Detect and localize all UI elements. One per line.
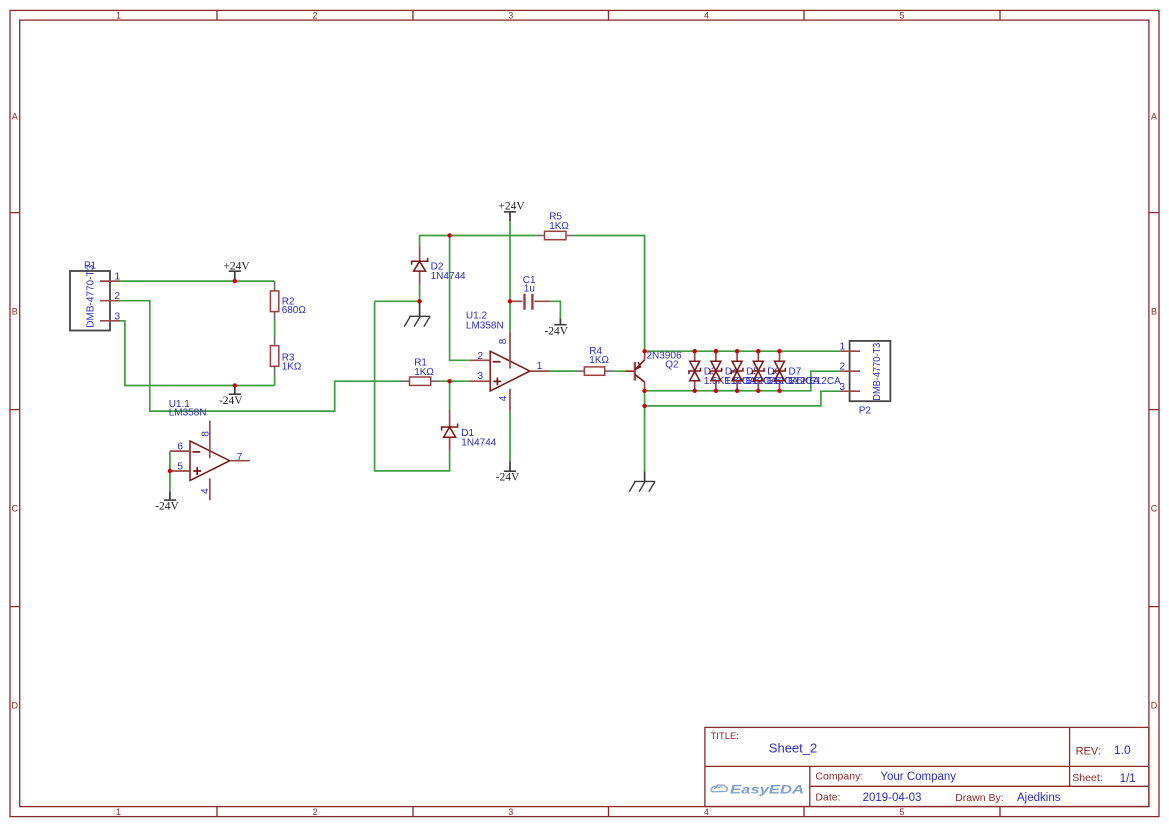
title block row line 2 [810,785,1149,787]
svg-text:Sheet_2: Sheet_2 [769,741,817,756]
svg-text:3: 3 [508,11,513,21]
node junction D2 bottom [417,299,421,303]
svg-text:4: 4 [704,807,709,817]
title block logo column divider [809,766,811,806]
wire R5 right to Q2 collector [575,236,644,352]
svg-text:EasyEDA: EasyEDA [730,785,804,797]
TVS diode D7 [774,351,841,391]
svg-text:Sheet:: Sheet: [1072,772,1102,784]
svg-text:5: 5 [899,11,904,21]
svg-text:8: 8 [200,431,211,437]
wire diode bottom rail to P2 pin2 [645,371,841,391]
op-amp U1.1 [169,399,250,500]
svg-text:1: 1 [114,272,120,283]
resistor R1 [401,358,441,386]
svg-text:1KΩ: 1KΩ [589,355,609,366]
node junction Q2 collector [642,349,646,353]
TVS diode D3 [689,351,756,391]
resistor R3 [270,337,302,377]
wire +24V column through C1 to U1.2 pin8 [509,221,511,331]
wire P1 pin3 to R3 bottom [120,321,275,386]
title block row line 1 [705,765,1149,767]
svg-text:5: 5 [899,807,904,817]
svg-text:D: D [12,701,19,711]
frame top ticks [217,10,1000,20]
TVS diode D6 [753,351,820,391]
power flag -24V at R3 net [219,386,243,407]
resistor R2 [270,281,306,320]
svg-text:-24V: -24V [219,395,243,407]
wire Q2 node to ground [644,391,646,472]
svg-text:-24V: -24V [544,325,568,337]
ground at D2 [404,302,430,327]
svg-text:B: B [1151,307,1157,317]
EasyEDA logo [711,785,804,797]
svg-text:1.0: 1.0 [1114,743,1131,757]
wire R4 right to Q2 base [615,370,625,372]
node junction Q2 emitter rail [642,389,646,393]
connector P1 [70,261,120,331]
wire R1 right to U1.2 pin3 [440,380,470,382]
resistor R5 [535,212,575,240]
wire left loop to D1 bottom [375,301,450,471]
node junction C1 left [508,299,512,303]
svg-text:LM358N: LM358N [466,321,504,332]
svg-text:A: A [1151,111,1157,121]
svg-text:1N4744: 1N4744 [461,438,496,449]
frame left ticks [10,213,20,607]
connector P2 [840,341,890,417]
node junction R1/pin3/D1 [447,379,451,383]
wire R2-R3 middle segment [274,321,276,337]
wire pin2 branch vertical [450,236,470,361]
frame bottom ticks [217,807,1000,817]
svg-text:Company:: Company: [815,771,863,783]
node junctions D5 [735,349,739,353]
svg-text:D: D [1151,701,1158,711]
TVS diode D4 [710,351,777,391]
title block rev column divider [1069,727,1071,786]
svg-text:1KΩ: 1KΩ [414,367,434,378]
resistor R4 [575,346,615,375]
svg-text:1u: 1u [524,284,535,295]
svg-text:1KΩ: 1KΩ [549,221,569,232]
svg-text:TITLE:: TITLE: [711,731,740,742]
node junctions D4 [714,349,718,353]
wire U1.2 pin4 to -24V [509,411,511,461]
svg-text:DMB-4770-T3: DMB-4770-T3 [86,264,97,327]
wire junction to D1 top [449,381,451,410]
svg-text:5: 5 [177,461,183,472]
svg-text:1.5KE12CA: 1.5KE12CA [789,376,842,387]
svg-text:7: 7 [237,452,243,463]
svg-text:8: 8 [498,338,509,344]
svg-text:3: 3 [114,311,120,322]
wire U1.1 pin6-pin5 to -24V [169,451,171,491]
svg-text:C: C [1151,504,1158,514]
svg-text:REV:: REV: [1076,746,1101,758]
svg-text:1/1: 1/1 [1120,773,1136,785]
svg-text:2: 2 [114,291,120,302]
svg-text:4: 4 [200,488,211,494]
svg-text:3: 3 [840,382,846,393]
svg-text:3: 3 [508,807,513,817]
svg-text:680Ω: 680Ω [282,305,307,316]
wire diode top rail to P2 pin1 [645,350,841,352]
svg-text:+24V: +24V [498,201,525,213]
svg-text:C: C [12,504,19,514]
svg-text:B: B [12,307,18,317]
ground at Q2 [629,471,655,491]
svg-text:4: 4 [704,11,709,21]
frame column numbers bottom [116,807,905,817]
wire U1.2 output to R4 [549,370,575,372]
op-amp U1.2 [466,311,549,412]
svg-text:2019-04-03: 2019-04-03 [863,792,922,804]
svg-text:DMB-4770-T3: DMB-4770-T3 [872,342,883,400]
svg-text:1: 1 [840,342,846,353]
svg-text:3: 3 [478,371,484,382]
svg-text:4: 4 [498,395,509,401]
svg-text:LM358N: LM358N [169,408,207,419]
svg-text:P2: P2 [859,405,872,416]
wire P1 pin1 to R2 top [120,280,275,282]
capacitor C1 [510,275,550,310]
frame right ticks [1149,213,1159,607]
svg-text:Date:: Date: [815,792,840,804]
power flag -24V at U1.1 [155,491,179,512]
wire D2 bottom to left loop [375,300,420,302]
svg-text:1: 1 [116,807,121,817]
power flag +24V top [498,201,525,221]
svg-text:1N4744: 1N4744 [431,271,466,282]
transistor Q2 [625,351,682,391]
node junctions D7 [777,349,781,353]
svg-text:A: A [12,111,18,121]
wire D2 bottom junction [419,286,421,302]
svg-text:6: 6 [177,441,183,452]
frame row letters left [12,111,19,710]
frame column numbers top [116,11,905,21]
wire P1 pin2 to R1 input [120,301,401,411]
svg-text:Q2: Q2 [665,360,679,371]
svg-text:1: 1 [116,11,121,21]
svg-text:1: 1 [537,361,543,372]
node junction -24V/R3 [233,383,237,387]
node junction +24V/P1 [233,279,237,283]
node junctions D3 [693,349,697,353]
title block outline [705,727,1149,806]
svg-text:2: 2 [840,362,846,373]
power flag +24V at P1 net [223,260,250,281]
svg-text:Ajedkins: Ajedkins [1017,792,1061,804]
svg-text:2: 2 [312,807,317,817]
node junction U1.1 pin5 [168,469,172,473]
frame row letters right [1151,111,1158,710]
svg-text:-24V: -24V [155,501,179,513]
power flag -24V at U1.2 pin4 [496,461,520,484]
zener diode D1 [442,410,497,451]
power flag -24V at C1 [544,318,568,337]
wire C1 right lead to -24V corner [550,301,560,318]
svg-text:2: 2 [478,351,484,362]
svg-text:Drawn By:: Drawn By: [955,792,1003,804]
wire top net D2 to R5 [420,236,536,246]
node junction top net / pin2 branch [447,233,451,237]
node junction Q2 pin3 net [642,404,646,408]
svg-text:-24V: -24V [496,472,520,484]
TVS diode D5 [731,351,798,391]
svg-text:+24V: +24V [223,260,250,272]
node junctions D6 [756,349,760,353]
wire Q2 emitter node to P2 pin3 [645,391,841,406]
svg-text:Your Company: Your Company [880,771,956,783]
svg-text:2: 2 [312,11,317,21]
zener diode D2 [412,245,466,285]
svg-text:1KΩ: 1KΩ [282,361,302,372]
wire R3 bottom lead drop [274,377,276,386]
